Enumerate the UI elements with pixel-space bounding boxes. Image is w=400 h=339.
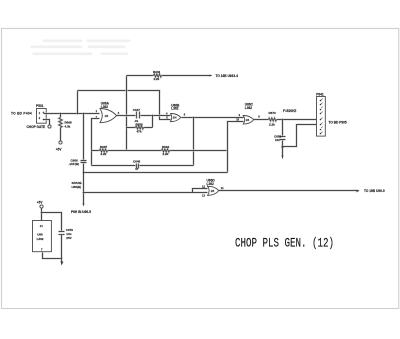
svg-text:CHOP GATE: CHOP GATE [27, 125, 46, 129]
arrow P6H IN U66-5 [71, 204, 91, 215]
junction at C652 tap [282, 119, 284, 121]
arrow to TO 16B U643-4 [210, 74, 239, 78]
resistor R242 2.2k [127, 70, 211, 81]
gate U66C L362 [243, 103, 254, 125]
wire: branch to C679 [42, 213, 62, 232]
pin 4 of P641 [320, 112, 323, 115]
ground (arrow) at C652 [282, 156, 284, 160]
ground (arrow) [61, 259, 64, 266]
pin 1 of P641 [320, 99, 323, 102]
svg-text:U66(B): U66(B) [72, 185, 82, 189]
svg-text:R673: R673 [269, 111, 277, 115]
svg-text:.1UF(B): .1UF(B) [69, 162, 80, 166]
svg-text:P501: P501 [36, 104, 44, 108]
svg-text:L362: L362 [207, 182, 214, 186]
resistor R664 2.2k [162, 145, 228, 156]
junction at x193.5 [193, 117, 195, 119]
svg-text:47k: 47k [137, 130, 142, 134]
pin 8 of P641 [320, 132, 323, 135]
svg-text:P6H IN U66-5: P6H IN U66-5 [71, 210, 91, 214]
svg-text:2.2k: 2.2k [101, 152, 107, 156]
svg-text:1/4: 1/4 [105, 114, 109, 118]
junction wire A / gate3 vertical [227, 150, 229, 152]
wire: gate2 output to gate3 [182, 116, 244, 118]
IC power box U66 L362 [33, 221, 52, 252]
pin 3 of P641 [320, 107, 323, 111]
junction node at R668 tap [60, 113, 62, 115]
wire: P501 pin1 to gate U66A input [44, 112, 100, 114]
capacitor C652 10n [274, 120, 286, 156]
junction node C647/R650 right [152, 115, 154, 117]
wire: top loop to gate U66B lower input [78, 91, 171, 120]
svg-text:R664: R664 [162, 145, 170, 149]
wire: gate4 output long run [219, 189, 357, 191]
svg-text:L362: L362 [245, 106, 252, 110]
svg-text:1/4: 1/4 [211, 189, 215, 193]
pin 1 of P501 [39, 111, 45, 115]
connector P501 [36, 104, 46, 123]
wire: V1 vertical (R242 / main / wire A) [125, 76, 127, 151]
junction ground node [61, 258, 63, 260]
wire: connector pin6 return [283, 125, 317, 147]
junction V1 on main wire [126, 115, 128, 117]
svg-text:C648: C648 [133, 159, 141, 163]
svg-text:R242: R242 [153, 70, 161, 74]
svg-text:R667: R667 [100, 145, 108, 149]
pin 2 of P501 [39, 116, 45, 120]
junction +5V branch [41, 212, 43, 214]
svg-text:CHOP PLS GEN. (12): CHOP PLS GEN. (12) [235, 237, 334, 251]
wire: U66 pin7 to ground [43, 253, 62, 259]
svg-text:4.3k: 4.3k [65, 125, 71, 129]
resistor R673 2.2k [254, 111, 317, 126]
capacitor C648 47 (wire B) [92, 159, 194, 171]
resistor R668 4.3k [59, 114, 72, 142]
junction node at x77 (loop riser) [77, 113, 79, 115]
gate U66A L362 [100, 102, 117, 123]
svg-text:47: 47 [135, 167, 139, 171]
wire: gate3 lower input from wire C [228, 122, 244, 173]
svg-text:TO 16B U99-9: TO 16B U99-9 [364, 189, 385, 193]
junction C666 branch / wire C [83, 172, 85, 174]
wire: x193.5 down to wire B [192, 118, 194, 166]
svg-text:2.2k: 2.2k [269, 122, 275, 126]
svg-text:F=520HZ: F=520HZ [283, 109, 296, 113]
svg-text:+5V: +5V [37, 201, 44, 205]
svg-text:1/4: 1/4 [246, 118, 250, 122]
svg-text:L362: L362 [171, 107, 178, 111]
wire: gate1 output to gate2 [117, 114, 171, 116]
+5V terminal [56, 141, 63, 152]
svg-text:P641: P641 [316, 92, 324, 96]
wire: to gate4 inputs [84, 189, 208, 193]
arrow TO 16B U99-9 [357, 189, 385, 193]
svg-text:TO BD P404: TO BD P404 [11, 111, 32, 115]
svg-text:10n: 10n [275, 138, 280, 142]
wire: riser x77 up to loop [76, 91, 78, 114]
wire C [84, 171, 228, 173]
svg-text:TO 16B U643-4: TO 16B U643-4 [216, 74, 239, 78]
svg-text:C647: C647 [133, 108, 141, 112]
junction x193.5 with wire A [193, 150, 195, 152]
wire: +5V to U66 pin 14 [40, 209, 42, 221]
gate U66D L362 [207, 179, 219, 196]
svg-text:+5V: +5V [56, 148, 63, 152]
node CHOP GATE terminal [27, 120, 52, 129]
pin 6 of P641 [320, 123, 323, 126]
connector P641 [316, 92, 325, 136]
svg-text:25V: 25V [66, 236, 71, 240]
capacitor C666 .1UF(B) [69, 114, 87, 205]
svg-text:R650: R650 [136, 122, 144, 126]
capacitor C647 [133, 108, 141, 123]
resistor R667 2.2k [92, 145, 162, 156]
pin 5 of P641 [320, 118, 323, 121]
junction node at x83.5 (C666 branch) [83, 113, 85, 115]
junction on loop at V1 [126, 90, 128, 92]
junction square C652/return wire [282, 146, 284, 148]
pin 7 of P641 [320, 127, 323, 131]
svg-text:TO BD P905: TO BD P905 [329, 120, 347, 124]
svg-text:2.2k: 2.2k [154, 77, 160, 81]
capacitor C679 10u 25V [59, 228, 74, 258]
wire: gate1 lower input feedback stub [92, 119, 100, 166]
gate U66B L362 [170, 103, 181, 121]
svg-text:L362: L362 [37, 237, 44, 241]
pin 2 of P641 [320, 103, 323, 106]
svg-text:1/4: 1/4 [173, 116, 177, 120]
+5V terminal (power box) [37, 201, 44, 208]
svg-text:2.2k: 2.2k [163, 152, 169, 156]
junction spare branch / gate4 wire [83, 192, 85, 194]
svg-text:L362: L362 [101, 105, 108, 109]
resistor R650 47k (parallel branch) [127, 116, 153, 134]
